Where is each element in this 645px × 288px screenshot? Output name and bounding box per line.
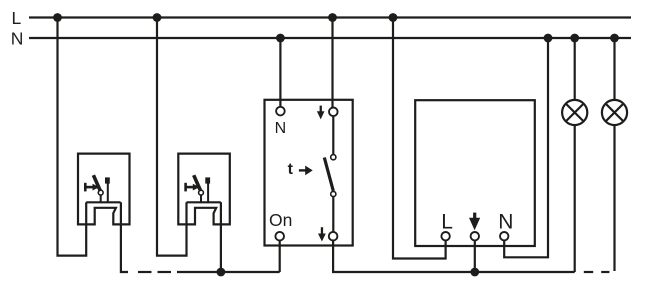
svg-text:N: N xyxy=(498,211,513,234)
svg-text:t: t xyxy=(288,161,294,178)
svg-text:N: N xyxy=(275,120,287,137)
svg-text:L: L xyxy=(441,211,453,234)
svg-text:N: N xyxy=(11,28,24,48)
svg-text:L: L xyxy=(12,8,22,28)
svg-text:On: On xyxy=(269,210,292,230)
